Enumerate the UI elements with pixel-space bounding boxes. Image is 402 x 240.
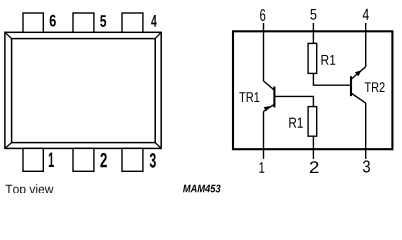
package pin 3 pad [122,148,143,171]
wire TR1 emitter to pin 1 [263,111,265,158]
package pin 1 pad [23,148,43,171]
schematic pin label 3 [363,160,370,172]
label R1 upper [322,55,336,65]
schematic pin label 5 [310,9,316,20]
label R1 lower [289,118,303,128]
schematic enclosure box [233,31,392,149]
schematic pin label 1 [259,162,264,172]
transistor TR2 emitter lead to pin 4 [351,67,366,80]
package pin number 3 [150,153,156,168]
caption Top view [6,184,54,196]
resistor R1 upper body [308,43,317,73]
transistor TR1 emitter arrow (PNP) [264,106,270,111]
package pin 6 pad [23,13,43,32]
package corner bevel top-right [155,32,161,38]
package pin 4 pad [122,13,143,32]
label TR1 [239,92,259,102]
package outline outer rectangle [5,32,161,148]
package corner bevel top-left [5,32,12,38]
package pin 5 pad [73,13,94,32]
transistor TR2 collector lead to pin 3 [351,93,366,103]
package pin number 6 [50,15,56,27]
schematic pin label 4 [363,9,369,20]
transistor TR1 emitter lead [264,104,275,111]
package pin number 1 [49,153,54,168]
package pin number 2 [100,153,106,167]
transistor TR2 base bar [350,76,352,96]
schematic pin label 2 [310,161,319,173]
wire pin 4 to TR2 emitter [365,23,367,67]
package pin 2 pad [73,148,94,171]
schematic pin label 6 [260,9,265,21]
wire resistor R1 lower to pin 2 [312,136,314,159]
package pin number 4 [151,15,157,27]
drawing code MAM453 [183,185,221,193]
wire resistor R1 upper to TR2 base [313,73,351,85]
transistor TR1 base bar [273,87,275,108]
package corner bevel bottom-left [5,143,12,149]
wire TR2 collector to pin 3 [365,103,367,159]
package outline inner rectangle [12,39,156,143]
label TR2 [365,82,385,92]
transistor TR1 collector lead [264,81,275,90]
wire pin 6 to TR1 collector [263,23,265,81]
wire pin 5 to resistor R1 upper [312,23,314,43]
transistor TR2 emitter arrow [355,70,362,76]
resistor R1 lower body [308,107,317,137]
package pin number 5 [100,15,106,27]
wire TR1 base to resistor R1 lower [274,96,313,106]
package corner bevel bottom-right [155,143,161,149]
